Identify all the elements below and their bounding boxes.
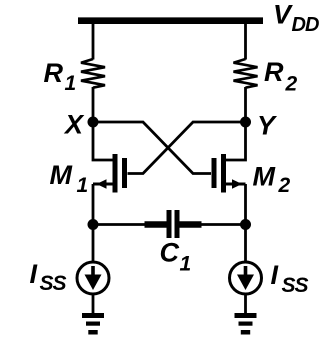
M2 gate bar <box>212 158 217 188</box>
wire: C1 to right tail node <box>201 223 246 226</box>
svg-text:1: 1 <box>65 72 77 95</box>
wire: node X to gate of M2 (cross-coupling) <box>93 122 211 174</box>
wire: M2 source to right tail node <box>244 184 247 225</box>
svg-text:R: R <box>264 57 284 87</box>
ISS left arrow shaft <box>91 266 95 276</box>
transistor M2 <box>212 154 246 193</box>
ISS right arrow head <box>237 275 254 291</box>
svg-text:I: I <box>271 260 279 290</box>
current source ISS right <box>230 262 262 294</box>
resistor R1 <box>81 59 105 88</box>
wire: rail to R2 <box>244 24 247 60</box>
C1 left lead <box>145 221 167 228</box>
wire: R2 to node Y <box>244 87 247 122</box>
M1 gate bar <box>122 158 127 188</box>
M2 channel bar <box>221 154 226 193</box>
wire: ISS right to ground <box>244 294 247 313</box>
M1 channel bar <box>113 154 118 193</box>
svg-text:1: 1 <box>180 253 192 276</box>
ISS left circle <box>77 262 109 294</box>
svg-text:2: 2 <box>278 174 291 197</box>
label M1 <box>50 160 89 197</box>
C1 left plate <box>167 210 172 238</box>
svg-text:SS: SS <box>282 274 309 297</box>
svg-text:X: X <box>63 110 85 140</box>
label VDD <box>273 0 319 36</box>
resistor R2 <box>234 59 258 88</box>
ISS left arrow head <box>85 275 102 291</box>
wire: M1 source to left tail node <box>92 184 95 225</box>
right tail node junction dot <box>240 219 251 230</box>
wire: node Y to M2 drain <box>226 122 246 160</box>
transistor M1 <box>93 154 127 193</box>
svg-text:SS: SS <box>40 272 67 295</box>
node Y junction dot <box>240 117 251 128</box>
capacitor C1 <box>145 210 202 238</box>
label ISS left <box>30 259 67 295</box>
svg-text:DD: DD <box>292 14 319 36</box>
wire: rail to R1 <box>92 24 95 60</box>
svg-text:Y: Y <box>257 111 278 141</box>
ground symbol left <box>82 313 104 335</box>
label M2 <box>253 162 291 198</box>
M1 source line <box>93 183 113 186</box>
C1 right lead <box>180 221 202 228</box>
svg-text:2: 2 <box>285 73 298 96</box>
svg-text:M: M <box>50 160 73 190</box>
label ISS right <box>271 260 309 297</box>
wire: right tail node to current source <box>244 225 247 262</box>
M2 source arrow <box>232 179 242 188</box>
current source ISS left <box>77 262 109 294</box>
C1 right plate <box>175 210 180 238</box>
svg-text:1: 1 <box>77 174 89 197</box>
label C1 <box>160 238 192 276</box>
svg-text:M: M <box>253 162 276 192</box>
ground symbol right <box>235 313 257 335</box>
svg-text:I: I <box>30 259 38 289</box>
wire: ISS left to ground <box>92 294 95 313</box>
wire: node Y to gate of M1 (cross-coupling) <box>128 122 246 174</box>
VDD supply rail <box>78 17 263 24</box>
wire: node X to M1 drain <box>93 122 113 160</box>
ISS right circle <box>230 262 262 294</box>
svg-text:V: V <box>273 0 293 30</box>
wire: left tail node to C1 <box>93 223 145 226</box>
wire: R1 to node X <box>92 87 95 122</box>
wire: left tail node to current source <box>92 225 95 262</box>
svg-text:R: R <box>44 58 64 88</box>
svg-text:C: C <box>160 238 180 268</box>
node X junction dot <box>88 117 99 128</box>
label R2 <box>264 57 298 96</box>
left tail node junction dot <box>88 219 99 230</box>
label R1 <box>44 58 77 95</box>
M1 source arrow <box>97 179 107 188</box>
M2 source line <box>226 183 246 186</box>
ISS right arrow shaft <box>244 266 248 276</box>
